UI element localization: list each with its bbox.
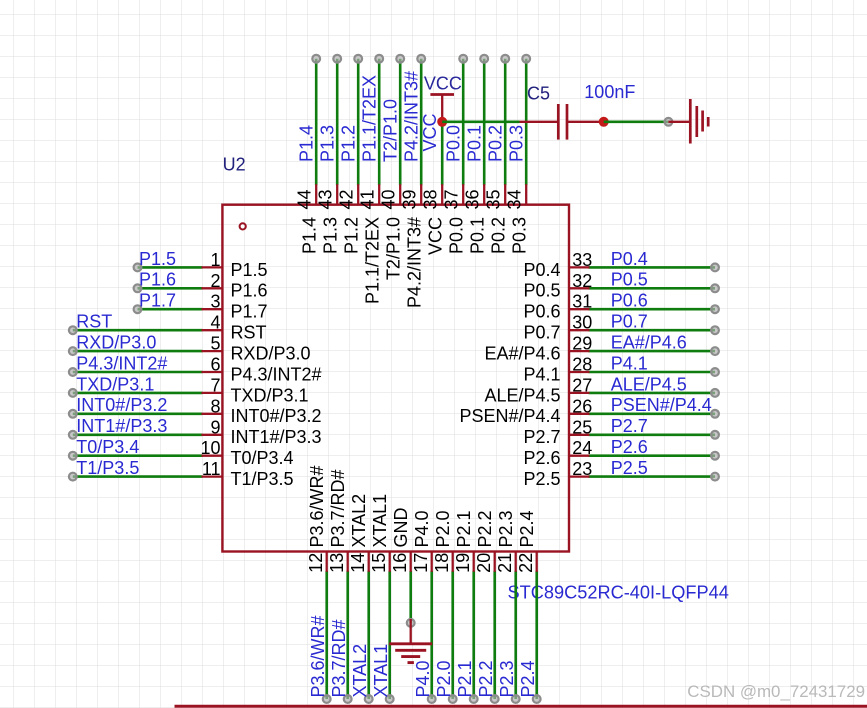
- wire net P2.1 (bottom pin 19): [472, 571, 475, 699]
- svg-text:13: 13: [327, 553, 347, 573]
- svg-text:39: 39: [400, 189, 420, 209]
- pin 4 stub: [202, 329, 223, 331]
- svg-text:P1.4: P1.4: [297, 125, 317, 162]
- terminal dot pin 10: [69, 452, 77, 460]
- wire net P4.3/INT2# (left pin 6): [73, 371, 203, 374]
- wire net P2.4 (bottom pin 22): [535, 571, 538, 699]
- svg-text:21: 21: [495, 553, 515, 573]
- wire net P2.3 (bottom pin 21): [514, 571, 517, 699]
- pin 2 stub: [202, 287, 223, 289]
- IC U2 STC89C52RC-40I-LQFP44 body: [222, 205, 569, 552]
- terminal dot pin 20: [491, 695, 499, 703]
- svg-text:P0.7: P0.7: [611, 312, 648, 332]
- wire terminal to ground symbol: [668, 121, 689, 123]
- svg-text:XTAL1: XTAL1: [371, 644, 391, 698]
- svg-text:P2.5: P2.5: [611, 458, 648, 478]
- wire net P0.0 (top pin 37): [462, 59, 465, 186]
- wire GND terminal to ground: [410, 619, 412, 644]
- svg-text:P0.3: P0.3: [510, 217, 530, 254]
- pin 6 stub: [202, 371, 223, 373]
- svg-text:ALE/P4.5: ALE/P4.5: [484, 385, 560, 405]
- terminal dot pin 24: [711, 452, 719, 460]
- svg-text:U2: U2: [223, 155, 246, 175]
- svg-text:32: 32: [572, 271, 592, 291]
- svg-text:22: 22: [516, 553, 536, 573]
- svg-text:XTAL1: XTAL1: [370, 494, 390, 548]
- svg-text:P3.6/WR#: P3.6/WR#: [307, 465, 327, 547]
- svg-text:INT0#/P3.2: INT0#/P3.2: [231, 406, 322, 426]
- svg-text:P1.3: P1.3: [318, 125, 338, 162]
- svg-text:27: 27: [572, 375, 592, 395]
- svg-text:P4.0: P4.0: [413, 660, 433, 697]
- pin 36 stub: [483, 184, 485, 205]
- svg-text:14: 14: [348, 553, 368, 573]
- terminal dot pin 18: [449, 695, 457, 703]
- svg-text:RXD/P3.0: RXD/P3.0: [231, 344, 311, 364]
- svg-text:P0.6: P0.6: [611, 291, 648, 311]
- wire net INT0#/P3.2 (left pin 8): [73, 412, 203, 415]
- terminal dot pin 22: [533, 695, 541, 703]
- svg-text:4: 4: [210, 313, 220, 333]
- pin 10 stub: [202, 455, 223, 457]
- terminal dot pin 12: [323, 695, 331, 703]
- svg-text:P1.2: P1.2: [342, 217, 362, 254]
- svg-text:GND: GND: [391, 508, 411, 548]
- terminal dot pin 2: [134, 284, 142, 292]
- pin 7 stub: [202, 392, 223, 394]
- ground symbol (bottom earth): [389, 642, 432, 645]
- pin 5 stub: [202, 350, 223, 352]
- terminal dot pin 26: [711, 410, 719, 418]
- pin 17 stub: [431, 552, 433, 572]
- svg-text:C5: C5: [527, 84, 550, 104]
- svg-text:P4.3/INT2#: P4.3/INT2#: [231, 364, 322, 384]
- svg-text:18: 18: [432, 553, 452, 573]
- wire net EA#/P4.6 (right pin 29): [589, 350, 716, 353]
- pin-1 indicator circle: [240, 223, 246, 229]
- svg-text:ALE/P4.5: ALE/P4.5: [611, 374, 687, 394]
- svg-text:5: 5: [210, 334, 220, 354]
- svg-text:T2/P1.0: T2/P1.0: [384, 217, 404, 280]
- svg-text:P2.4: P2.4: [517, 510, 537, 547]
- terminal dot pin 41: [375, 55, 383, 63]
- wire net P2.0 (bottom pin 18): [451, 571, 454, 699]
- svg-text:XTAL2: XTAL2: [350, 644, 370, 698]
- svg-text:P0.1: P0.1: [465, 125, 485, 162]
- svg-text:P1.7: P1.7: [139, 291, 176, 311]
- svg-text:RST: RST: [231, 323, 267, 343]
- terminal dot pin 14: [365, 695, 373, 703]
- svg-text:TXD/P3.1: TXD/P3.1: [76, 374, 154, 394]
- junction dot at VCC net: [437, 117, 447, 127]
- wire net PSEN#/P4.4 (right pin 26): [589, 412, 716, 415]
- wire net P0.5 (right pin 32): [589, 287, 716, 290]
- wire net GND (bottom pin 16): [409, 571, 412, 623]
- capacitor C5 left lead: [520, 121, 559, 123]
- svg-text:EA#/P4.6: EA#/P4.6: [611, 333, 687, 353]
- svg-text:P0.3: P0.3: [507, 125, 527, 162]
- terminal dot pin 5: [69, 347, 77, 355]
- svg-text:VCC: VCC: [424, 73, 462, 93]
- svg-text:P2.4: P2.4: [518, 660, 538, 697]
- svg-text:40: 40: [379, 189, 399, 209]
- terminal dot pin 9: [69, 431, 77, 439]
- svg-text:P0.0: P0.0: [444, 125, 464, 162]
- svg-text:P1.7: P1.7: [231, 302, 268, 322]
- svg-text:P4.1: P4.1: [611, 353, 648, 373]
- wire C5 to ground: [604, 121, 669, 124]
- svg-text:P2.3: P2.3: [496, 510, 516, 547]
- terminal dot pin 21: [512, 695, 520, 703]
- svg-text:T0/P3.4: T0/P3.4: [231, 448, 294, 468]
- svg-text:STC89C52RC-40I-LQFP44: STC89C52RC-40I-LQFP44: [508, 582, 729, 602]
- svg-text:P2.1: P2.1: [454, 510, 474, 547]
- wire net T2/P1.0 (top pin 40): [399, 59, 402, 186]
- terminal dot pin 39: [417, 55, 425, 63]
- pin 12 stub: [326, 552, 328, 572]
- svg-text:RXD/P3.0: RXD/P3.0: [76, 333, 156, 353]
- svg-text:10: 10: [200, 438, 220, 458]
- svg-text:T2/P1.0: T2/P1.0: [381, 99, 401, 162]
- wire net INT1#/P3.3 (left pin 9): [73, 433, 203, 436]
- wire net P2.2 (bottom pin 20): [493, 571, 496, 699]
- terminal dot pin 40: [396, 55, 404, 63]
- svg-text:P3.7/RD#: P3.7/RD#: [328, 469, 348, 547]
- svg-text:100nF: 100nF: [584, 82, 635, 102]
- pin 22 stub: [536, 552, 538, 572]
- wire net P1.2 (top pin 42): [357, 59, 360, 186]
- svg-text:T1/P3.5: T1/P3.5: [76, 458, 139, 478]
- terminal dot pin 34: [522, 55, 530, 63]
- wire net P2.5 (right pin 23): [589, 475, 716, 478]
- svg-text:P4.2/INT3#: P4.2/INT3#: [405, 217, 425, 308]
- wire net P0.1 (top pin 36): [483, 59, 486, 186]
- pin 15 stub: [389, 552, 391, 572]
- wire net P4.0 (bottom pin 17): [430, 571, 433, 699]
- svg-text:RST: RST: [76, 312, 112, 332]
- svg-text:INT1#/P3.3: INT1#/P3.3: [76, 416, 167, 436]
- pin 38 stub: [441, 184, 443, 205]
- svg-text:17: 17: [411, 553, 431, 573]
- wire net P2.6 (right pin 24): [589, 454, 716, 457]
- wire net P3.6/WR# (bottom pin 12): [325, 571, 328, 699]
- ground symbol (right, rotated): [689, 99, 692, 144]
- svg-text:31: 31: [572, 292, 592, 312]
- wire net P0.7 (right pin 30): [589, 329, 716, 332]
- pin 30 stub: [569, 329, 590, 331]
- svg-text:INT1#/P3.3: INT1#/P3.3: [231, 427, 322, 447]
- svg-text:P4.2/INT3#: P4.2/INT3#: [402, 71, 422, 162]
- svg-text:P3.6/WR#: P3.6/WR#: [308, 615, 328, 697]
- pin 8 stub: [202, 413, 223, 415]
- terminal dot pin 4: [69, 326, 77, 334]
- wire net VCC (top pin 38): [441, 122, 444, 185]
- terminal dot pin 37: [459, 55, 467, 63]
- svg-text:8: 8: [210, 396, 220, 416]
- pin 33 stub: [569, 266, 590, 268]
- svg-text:16: 16: [390, 553, 410, 573]
- pin 32 stub: [569, 287, 590, 289]
- pin 1 stub: [202, 266, 223, 268]
- wire net P4.1 (right pin 28): [589, 371, 716, 374]
- partial component edge at bottom: [175, 705, 867, 708]
- svg-text:P0.2: P0.2: [486, 125, 506, 162]
- terminal dot pin 44: [312, 55, 320, 63]
- svg-text:P1.1/T2EX: P1.1/T2EX: [363, 217, 383, 304]
- pin 19 stub: [473, 552, 475, 572]
- pin 26 stub: [569, 413, 590, 415]
- svg-text:29: 29: [572, 334, 592, 354]
- svg-text:P4.3/INT2#: P4.3/INT2#: [76, 353, 167, 373]
- terminal dot pin 6: [69, 368, 77, 376]
- pin 37 stub: [462, 184, 464, 205]
- pin 23 stub: [569, 475, 590, 477]
- svg-text:P1.3: P1.3: [321, 217, 341, 254]
- svg-text:TXD/P3.1: TXD/P3.1: [231, 385, 309, 405]
- svg-text:P1.4: P1.4: [300, 217, 320, 254]
- wire net TXD/P3.1 (left pin 7): [73, 392, 203, 395]
- pin 43 stub: [336, 184, 338, 205]
- terminal dot pin 29: [711, 347, 719, 355]
- svg-text:VCC: VCC: [426, 217, 446, 255]
- svg-text:T0/P3.4: T0/P3.4: [76, 437, 139, 457]
- svg-text:P3.7/RD#: P3.7/RD#: [329, 619, 349, 697]
- terminal dot pin 8: [69, 410, 77, 418]
- pin 20 stub: [494, 552, 496, 572]
- terminal dot pin 7: [69, 389, 77, 397]
- junction dot right of C5: [599, 117, 609, 127]
- svg-text:CSDN @m0_72431729: CSDN @m0_72431729: [687, 682, 865, 701]
- terminal dot pin 30: [711, 326, 719, 334]
- svg-text:20: 20: [474, 553, 494, 573]
- svg-text:43: 43: [316, 189, 336, 209]
- svg-text:P0.5: P0.5: [611, 270, 648, 290]
- svg-text:P2.5: P2.5: [523, 469, 560, 489]
- wire net P0.4 (right pin 33): [589, 266, 716, 269]
- pin 29 stub: [569, 350, 590, 352]
- svg-text:24: 24: [572, 438, 592, 458]
- pin 28 stub: [569, 371, 590, 373]
- svg-text:37: 37: [442, 189, 462, 209]
- svg-text:11: 11: [202, 459, 221, 479]
- pin 13 stub: [347, 552, 349, 572]
- pin 31 stub: [569, 308, 590, 310]
- wire net T1/P3.5 (left pin 11): [73, 475, 203, 478]
- wire net P2.7 (right pin 25): [589, 433, 716, 436]
- terminal dot pin 17: [428, 695, 436, 703]
- svg-text:12: 12: [306, 553, 326, 573]
- wire net P0.2 (top pin 35): [504, 59, 507, 186]
- svg-text:3: 3: [210, 292, 220, 312]
- svg-text:P2.2: P2.2: [476, 660, 496, 697]
- capacitor C5 right lead: [567, 121, 604, 123]
- terminal dot pin 36: [480, 55, 488, 63]
- svg-text:P2.2: P2.2: [475, 510, 495, 547]
- pin 44 stub: [315, 184, 317, 205]
- pin 34 stub: [525, 184, 527, 205]
- svg-text:7: 7: [210, 375, 220, 395]
- svg-text:6: 6: [210, 355, 220, 375]
- pin 3 stub: [202, 308, 223, 310]
- svg-text:P2.1: P2.1: [455, 660, 475, 697]
- svg-text:30: 30: [572, 313, 592, 333]
- wire net XTAL2 (bottom pin 14): [367, 571, 370, 699]
- wire net P1.7 (left pin 3): [138, 308, 203, 311]
- pin 18 stub: [452, 552, 454, 572]
- terminal dot pin 15: [386, 695, 394, 703]
- svg-text:P2.0: P2.0: [433, 510, 453, 547]
- pin 24 stub: [569, 455, 590, 457]
- svg-text:P2.0: P2.0: [434, 660, 454, 697]
- svg-text:P1.5: P1.5: [139, 249, 176, 269]
- terminal dot pin 28: [711, 368, 719, 376]
- svg-text:41: 41: [358, 189, 378, 209]
- svg-text:EA#/P4.6: EA#/P4.6: [484, 344, 560, 364]
- terminal dot pin 11: [69, 473, 77, 481]
- capacitor C5 left plate: [557, 104, 560, 140]
- svg-text:VCC: VCC: [420, 113, 440, 151]
- svg-text:P0.5: P0.5: [523, 281, 560, 301]
- terminal dot pin 27: [711, 389, 719, 397]
- terminal dot pin 16: [407, 619, 415, 627]
- svg-text:23: 23: [572, 459, 592, 479]
- terminal dot pin 35: [501, 55, 509, 63]
- pin 27 stub: [569, 392, 590, 394]
- svg-text:P1.2: P1.2: [339, 125, 359, 162]
- pin 39 stub: [420, 184, 422, 205]
- pin 35 stub: [504, 184, 506, 205]
- wire net RXD/P3.0 (left pin 5): [73, 350, 203, 353]
- svg-text:P0.1: P0.1: [468, 217, 488, 254]
- wire net T0/P3.4 (left pin 10): [73, 454, 203, 457]
- capacitor C5 right plate: [566, 104, 569, 140]
- terminal dot pin 23: [711, 473, 719, 481]
- svg-text:P4.1: P4.1: [523, 364, 560, 384]
- wire net P1.3 (top pin 43): [336, 59, 339, 186]
- pin 21 stub: [515, 552, 517, 572]
- terminal dot pin 43: [333, 55, 341, 63]
- svg-text:P0.6: P0.6: [523, 302, 560, 322]
- svg-text:25: 25: [572, 417, 592, 437]
- svg-text:P2.7: P2.7: [523, 427, 560, 447]
- wire net P1.6 (left pin 2): [138, 287, 203, 290]
- wire net P1.1/T2EX (top pin 41): [378, 59, 381, 186]
- pin 41 stub: [378, 184, 380, 205]
- svg-text:33: 33: [572, 250, 592, 270]
- wire VCC to C5: [442, 121, 519, 124]
- svg-text:P0.4: P0.4: [611, 249, 648, 269]
- wire net P3.7/RD# (bottom pin 13): [346, 571, 349, 699]
- svg-text:35: 35: [484, 189, 504, 209]
- pin 11 stub: [202, 475, 223, 477]
- svg-text:P0.0: P0.0: [447, 217, 467, 254]
- terminal dot pin 1: [134, 264, 142, 272]
- pin 16 stub: [410, 552, 412, 572]
- svg-text:P1.6: P1.6: [231, 281, 268, 301]
- wire net P0.6 (right pin 31): [589, 308, 716, 311]
- wire net P1.4 (top pin 44): [315, 59, 318, 186]
- wire net XTAL1 (bottom pin 15): [388, 571, 391, 699]
- terminal dot pin 31: [711, 305, 719, 313]
- wire net P0.3 (top pin 34): [525, 59, 528, 186]
- svg-text:PSEN#/P4.4: PSEN#/P4.4: [611, 395, 712, 415]
- power symbol VCC bar: [430, 93, 454, 96]
- terminal dot pin 19: [470, 695, 478, 703]
- svg-text:34: 34: [505, 189, 525, 209]
- terminal dot pin 25: [711, 431, 719, 439]
- svg-text:P2.3: P2.3: [497, 660, 517, 697]
- svg-text:P0.4: P0.4: [523, 260, 560, 280]
- svg-text:38: 38: [421, 189, 441, 209]
- terminal dot pin 32: [711, 284, 719, 292]
- svg-text:19: 19: [453, 553, 473, 573]
- terminal dot pin 13: [344, 695, 352, 703]
- svg-text:P1.5: P1.5: [231, 260, 268, 280]
- svg-text:P1.1/T2EX: P1.1/T2EX: [360, 75, 380, 162]
- pin 9 stub: [202, 434, 223, 436]
- svg-text:1: 1: [210, 250, 220, 270]
- svg-text:P2.7: P2.7: [611, 416, 648, 436]
- svg-text:P4.0: P4.0: [412, 510, 432, 547]
- svg-text:P0.7: P0.7: [523, 323, 560, 343]
- svg-text:P2.6: P2.6: [523, 448, 560, 468]
- wire net P4.2/INT3# (top pin 39): [420, 59, 423, 186]
- terminal dot pin 33: [711, 264, 719, 272]
- svg-text:P0.2: P0.2: [489, 217, 509, 254]
- svg-text:XTAL2: XTAL2: [349, 494, 369, 548]
- terminal dot cap-gnd: [665, 118, 673, 126]
- pin 25 stub: [569, 434, 590, 436]
- svg-text:9: 9: [210, 417, 220, 437]
- svg-text:P1.6: P1.6: [139, 270, 176, 290]
- terminal dot pin 3: [134, 305, 142, 313]
- svg-text:42: 42: [337, 189, 357, 209]
- svg-text:T1/P3.5: T1/P3.5: [231, 469, 294, 489]
- svg-text:INT0#/P3.2: INT0#/P3.2: [76, 395, 167, 415]
- svg-text:PSEN#/P4.4: PSEN#/P4.4: [459, 406, 560, 426]
- svg-text:36: 36: [463, 189, 483, 209]
- svg-text:2: 2: [210, 271, 220, 291]
- svg-text:28: 28: [572, 355, 592, 375]
- svg-text:26: 26: [572, 396, 592, 416]
- wire net RST (left pin 4): [73, 329, 203, 332]
- terminal dot pin 42: [354, 55, 362, 63]
- svg-text:44: 44: [295, 189, 315, 209]
- wire net P1.5 (left pin 1): [138, 266, 203, 269]
- pin 40 stub: [399, 184, 401, 205]
- pin 42 stub: [357, 184, 359, 205]
- svg-text:15: 15: [369, 553, 389, 573]
- power symbol VCC stem: [441, 95, 443, 122]
- pin 14 stub: [368, 552, 370, 572]
- wire net ALE/P4.5 (right pin 27): [589, 392, 716, 395]
- svg-text:P2.6: P2.6: [611, 437, 648, 457]
